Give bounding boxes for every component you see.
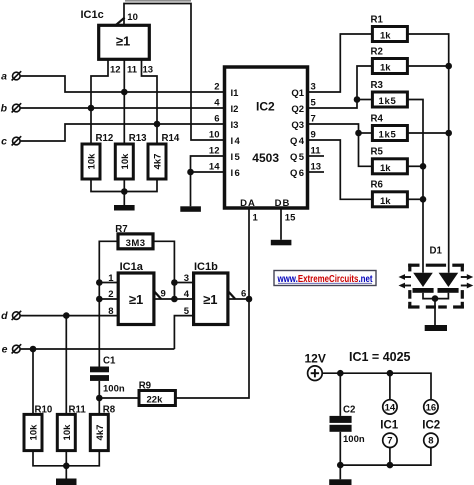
wire Q6 stub bbox=[308, 171, 324, 173]
svg-text:≥1: ≥1 bbox=[203, 292, 217, 307]
wire d to IC1a pin8 bbox=[20, 315, 118, 317]
resistor R3 1k5 bbox=[371, 80, 408, 107]
gray crop line top edge bbox=[125, 0, 191, 2]
svg-text:I4: I4 bbox=[231, 136, 242, 147]
resistor R1 1k bbox=[371, 14, 408, 41]
svg-text:R13: R13 bbox=[129, 133, 147, 144]
svg-text:10: 10 bbox=[127, 12, 138, 23]
svg-text:e: e bbox=[2, 344, 8, 356]
svg-text:a: a bbox=[1, 71, 7, 83]
svg-text:3: 3 bbox=[311, 82, 316, 93]
resistor R4 1k5 bbox=[371, 113, 408, 140]
svg-text:IC2: IC2 bbox=[256, 100, 275, 114]
wire IC1c pin13 to node c / R14 bbox=[142, 59, 158, 144]
resistor R7 3M3 bbox=[115, 224, 153, 249]
wire R7 left to IC1a inputs and C1 bbox=[99, 241, 118, 366]
wire C2 bottom bbox=[339, 432, 341, 465]
svg-text:Q1: Q1 bbox=[291, 88, 304, 99]
svg-text:14: 14 bbox=[209, 162, 220, 173]
wire IC1 pin14 drop bbox=[389, 373, 391, 399]
resistor R5 1k bbox=[371, 147, 408, 174]
svg-text:10k: 10k bbox=[29, 424, 40, 441]
wire DA pin1 down to R9 bbox=[175, 208, 249, 399]
wire c to IC2 I3 bbox=[20, 124, 223, 141]
wire IC1c output pin10 to IC2 I4 bbox=[124, 4, 223, 141]
svg-text:6: 6 bbox=[241, 289, 246, 300]
junction Q2/R3 bbox=[354, 96, 361, 103]
svg-text:10k: 10k bbox=[62, 424, 73, 441]
wire R3 to left bus bbox=[407, 100, 423, 273]
svg-text:R5: R5 bbox=[371, 147, 384, 158]
resistor R2 1k bbox=[371, 46, 408, 73]
svg-text:Q3: Q3 bbox=[291, 120, 304, 131]
wire IC1b out to DA line bbox=[228, 298, 249, 300]
svg-text:IC2: IC2 bbox=[422, 419, 440, 431]
svg-text:11: 11 bbox=[311, 146, 322, 157]
ground under R12-R14 bbox=[114, 192, 135, 211]
resistor R10 10k bbox=[24, 405, 52, 451]
svg-text:1k5: 1k5 bbox=[379, 96, 397, 107]
svg-text:13: 13 bbox=[143, 65, 154, 76]
wire R11 top to node d bbox=[65, 316, 67, 415]
junction c/R14 bbox=[154, 121, 161, 128]
wire IC1 pin7 to bottom rail bbox=[389, 448, 391, 465]
svg-text:10k: 10k bbox=[87, 153, 98, 170]
wire R10/R11/R8 bottoms to ground rail bbox=[33, 451, 99, 466]
capacitor C1 100n bbox=[90, 356, 125, 395]
svg-text:4: 4 bbox=[214, 98, 220, 109]
junction R2/bus bbox=[445, 63, 452, 70]
wire Q3 to R4/R5 bbox=[308, 124, 372, 166]
svg-text:Q4: Q4 bbox=[290, 136, 305, 147]
svg-text:100n: 100n bbox=[343, 434, 365, 445]
svg-text:I1: I1 bbox=[231, 88, 240, 99]
wire R7 right to IC1a output / IC1b inputs bbox=[153, 241, 174, 299]
wire C1 bottom to R8/R9 bbox=[98, 381, 100, 415]
svg-text:R6: R6 bbox=[371, 180, 384, 191]
svg-text:R4: R4 bbox=[371, 113, 384, 124]
svg-text:10: 10 bbox=[209, 130, 220, 141]
op-gate IC1c (NOR) bbox=[81, 9, 150, 60]
svg-text:100n: 100n bbox=[103, 384, 125, 395]
svg-text:c: c bbox=[1, 136, 7, 148]
IC2 4503 hex buffer bbox=[225, 67, 308, 209]
12V supply terminal bbox=[308, 366, 323, 381]
IC1 pin 7 circle bbox=[383, 433, 397, 447]
wire I5/I6 tie to ground bbox=[191, 156, 224, 206]
wire R12/R13/R14 bottoms to ground rail bbox=[91, 179, 157, 192]
node a terminal bbox=[1, 71, 21, 83]
svg-text:DB: DB bbox=[275, 198, 291, 209]
resistor R14 4k7 bbox=[148, 133, 180, 179]
junction IC1-7/rail bbox=[387, 462, 394, 469]
wire DB pin15 to ground bbox=[280, 208, 282, 240]
svg-text:12: 12 bbox=[209, 146, 220, 157]
wire e to IC1b pin5 bbox=[20, 348, 174, 350]
wire branch to R3 bbox=[357, 99, 372, 101]
wire C2 top bbox=[339, 373, 341, 416]
ground under C2 bbox=[329, 465, 351, 485]
ground under R10/R11 bbox=[56, 466, 77, 485]
svg-text:10k: 10k bbox=[120, 153, 131, 170]
op-gate IC1a (NOR) bbox=[118, 261, 154, 325]
junction IC1-14/rail bbox=[387, 370, 394, 377]
svg-text:12V: 12V bbox=[305, 352, 326, 366]
wire R5 to left bus bbox=[407, 165, 423, 167]
junction R6/bus bbox=[420, 196, 427, 203]
node c terminal bbox=[1, 136, 21, 148]
wire branch to R4 bbox=[359, 132, 373, 134]
wire top supply rail bbox=[322, 373, 431, 399]
junction C2/rail bbox=[337, 370, 344, 377]
wire Q1 to R1 bbox=[308, 34, 372, 92]
wire IC1c pin12 to node b / R12 bbox=[91, 59, 108, 144]
svg-text:15: 15 bbox=[285, 213, 296, 224]
ground under I5/I6 bbox=[180, 206, 201, 212]
svg-text:4503: 4503 bbox=[252, 151, 279, 165]
junction DA/IC1b out bbox=[246, 296, 253, 303]
junction a/pin11 bbox=[121, 89, 128, 96]
svg-text:1: 1 bbox=[253, 213, 259, 224]
svg-text:IC1 = 4025: IC1 = 4025 bbox=[349, 350, 411, 364]
svg-text:3M3: 3M3 bbox=[126, 238, 146, 249]
svg-text:1k: 1k bbox=[380, 31, 391, 42]
svg-text:7: 7 bbox=[311, 114, 316, 125]
LED D1 duo package bbox=[399, 246, 474, 309]
svg-text:11: 11 bbox=[127, 65, 138, 76]
resistor R12 10k bbox=[82, 133, 113, 179]
svg-text:Q6: Q6 bbox=[290, 168, 305, 179]
resistor R6 1k bbox=[371, 180, 408, 207]
svg-text:1k: 1k bbox=[380, 163, 391, 174]
svg-text:I6: I6 bbox=[231, 168, 242, 179]
svg-text:IC1a: IC1a bbox=[120, 261, 144, 273]
svg-text:b: b bbox=[1, 103, 8, 115]
svg-text:DA: DA bbox=[240, 198, 256, 209]
pin 10 inversion slash and label bbox=[116, 12, 138, 25]
svg-text:C1: C1 bbox=[103, 356, 116, 367]
svg-text:≥1: ≥1 bbox=[129, 292, 143, 307]
svg-text:12: 12 bbox=[110, 65, 121, 76]
svg-text:9: 9 bbox=[311, 130, 316, 141]
svg-text:d: d bbox=[1, 310, 8, 322]
svg-text:2: 2 bbox=[214, 82, 219, 93]
svg-text:IC1c: IC1c bbox=[81, 9, 104, 21]
svg-text:≥1: ≥1 bbox=[116, 34, 130, 49]
junction bottom rail bbox=[63, 463, 70, 470]
svg-text:22k: 22k bbox=[147, 395, 164, 406]
node e terminal bbox=[2, 344, 22, 356]
wire tie IC1b pins 3,4 bbox=[174, 283, 193, 300]
wire R4 to right bus bbox=[407, 132, 448, 134]
junction e/R10 bbox=[30, 346, 37, 353]
resistor R13 10k bbox=[115, 133, 147, 179]
svg-text:IC1b: IC1b bbox=[194, 261, 218, 273]
svg-text:14: 14 bbox=[385, 402, 396, 413]
svg-text:13: 13 bbox=[311, 162, 322, 173]
svg-text:R12: R12 bbox=[96, 133, 114, 144]
svg-text:Q5: Q5 bbox=[290, 152, 305, 163]
svg-text:IC1: IC1 bbox=[380, 419, 399, 431]
node b terminal bbox=[1, 103, 22, 115]
svg-text:Q2: Q2 bbox=[291, 104, 304, 115]
capacitor C2 100n bbox=[330, 404, 365, 445]
svg-text:R3: R3 bbox=[371, 80, 384, 91]
junction pin3 bbox=[171, 279, 178, 286]
junction pin4 bbox=[171, 296, 178, 303]
IC1b output slash pin 6 bbox=[228, 289, 246, 300]
resistor R11 10k bbox=[57, 405, 86, 451]
svg-text:4k7: 4k7 bbox=[153, 154, 164, 170]
wire Q2 to R2/R3 bbox=[308, 66, 372, 108]
node d terminal bbox=[1, 310, 21, 322]
wire Q4 to R6 bbox=[308, 140, 372, 199]
wire IC1a out to IC1b in bbox=[154, 298, 194, 300]
svg-text:3: 3 bbox=[184, 273, 189, 284]
svg-text:16: 16 bbox=[426, 402, 437, 413]
wire R9 left bbox=[99, 397, 139, 399]
junction b/R12 bbox=[88, 105, 95, 112]
svg-text:I2: I2 bbox=[231, 104, 239, 115]
svg-text:R2: R2 bbox=[371, 46, 383, 57]
wire IC1c pin11 to node a / R13 bbox=[123, 59, 125, 144]
wire R6 to left bus bbox=[407, 198, 423, 200]
junction d/R11 bbox=[63, 312, 70, 319]
junction C1/R8/R9 bbox=[96, 395, 103, 402]
wire a to IC2 I1 bbox=[20, 76, 223, 92]
www.ExtremeCircuits.net banner bbox=[274, 271, 376, 286]
IC1a output slash pin 9 bbox=[154, 289, 166, 300]
resistor R8 4k7 bbox=[90, 405, 115, 451]
junction C2/bottom rail bbox=[337, 462, 344, 469]
junction pin1 bbox=[96, 279, 103, 286]
resistor R9 22k bbox=[139, 381, 176, 406]
wire Q5 stub bbox=[308, 155, 324, 157]
svg-text:I3: I3 bbox=[231, 120, 239, 131]
svg-text:C2: C2 bbox=[343, 404, 355, 415]
svg-text:7: 7 bbox=[387, 436, 392, 447]
junction rail bbox=[121, 188, 128, 195]
IC2 pin 16 circle bbox=[424, 400, 438, 414]
svg-text:9: 9 bbox=[161, 289, 166, 300]
wire IC1a pin2 stub bbox=[99, 298, 118, 300]
IC1 pin 14 circle bbox=[383, 400, 397, 414]
junction R5/bus bbox=[420, 163, 427, 170]
ground under DB bbox=[271, 240, 292, 246]
svg-text:1k: 1k bbox=[380, 63, 391, 74]
wire R1 to right bus bbox=[407, 34, 448, 273]
svg-text:R14: R14 bbox=[162, 133, 180, 144]
svg-text:1k5: 1k5 bbox=[379, 130, 397, 141]
junction R4/bus bbox=[445, 130, 452, 137]
svg-text:4k7: 4k7 bbox=[95, 425, 106, 441]
IC2 pin 8 circle bbox=[424, 433, 438, 447]
svg-text:D1: D1 bbox=[430, 246, 443, 257]
wire IC1a pin1 stub bbox=[99, 282, 118, 284]
svg-text:1k: 1k bbox=[380, 196, 391, 207]
wire b to IC2 I2 bbox=[20, 107, 223, 109]
svg-text:R1: R1 bbox=[371, 14, 384, 25]
junction Q3/R4 bbox=[355, 130, 362, 137]
svg-text:6: 6 bbox=[214, 114, 219, 125]
svg-text:I5: I5 bbox=[231, 152, 242, 163]
ground under D1 bbox=[425, 299, 447, 331]
junction cathodes bbox=[432, 295, 439, 302]
wire bottom rail bbox=[340, 448, 431, 465]
wire D1 cathodes join bbox=[423, 293, 448, 299]
junction I5/I6 bbox=[187, 169, 194, 176]
junction pin2 bbox=[96, 296, 103, 303]
svg-text:4: 4 bbox=[184, 289, 190, 300]
svg-text:5: 5 bbox=[311, 98, 317, 109]
wire IC1b pin5 to node e bbox=[174, 316, 193, 349]
op-gate IC1b (NOR) bbox=[194, 261, 228, 325]
wire R10 top to node e bbox=[32, 349, 34, 414]
svg-text:8: 8 bbox=[428, 436, 433, 447]
wire R2 to right bus bbox=[407, 65, 448, 67]
